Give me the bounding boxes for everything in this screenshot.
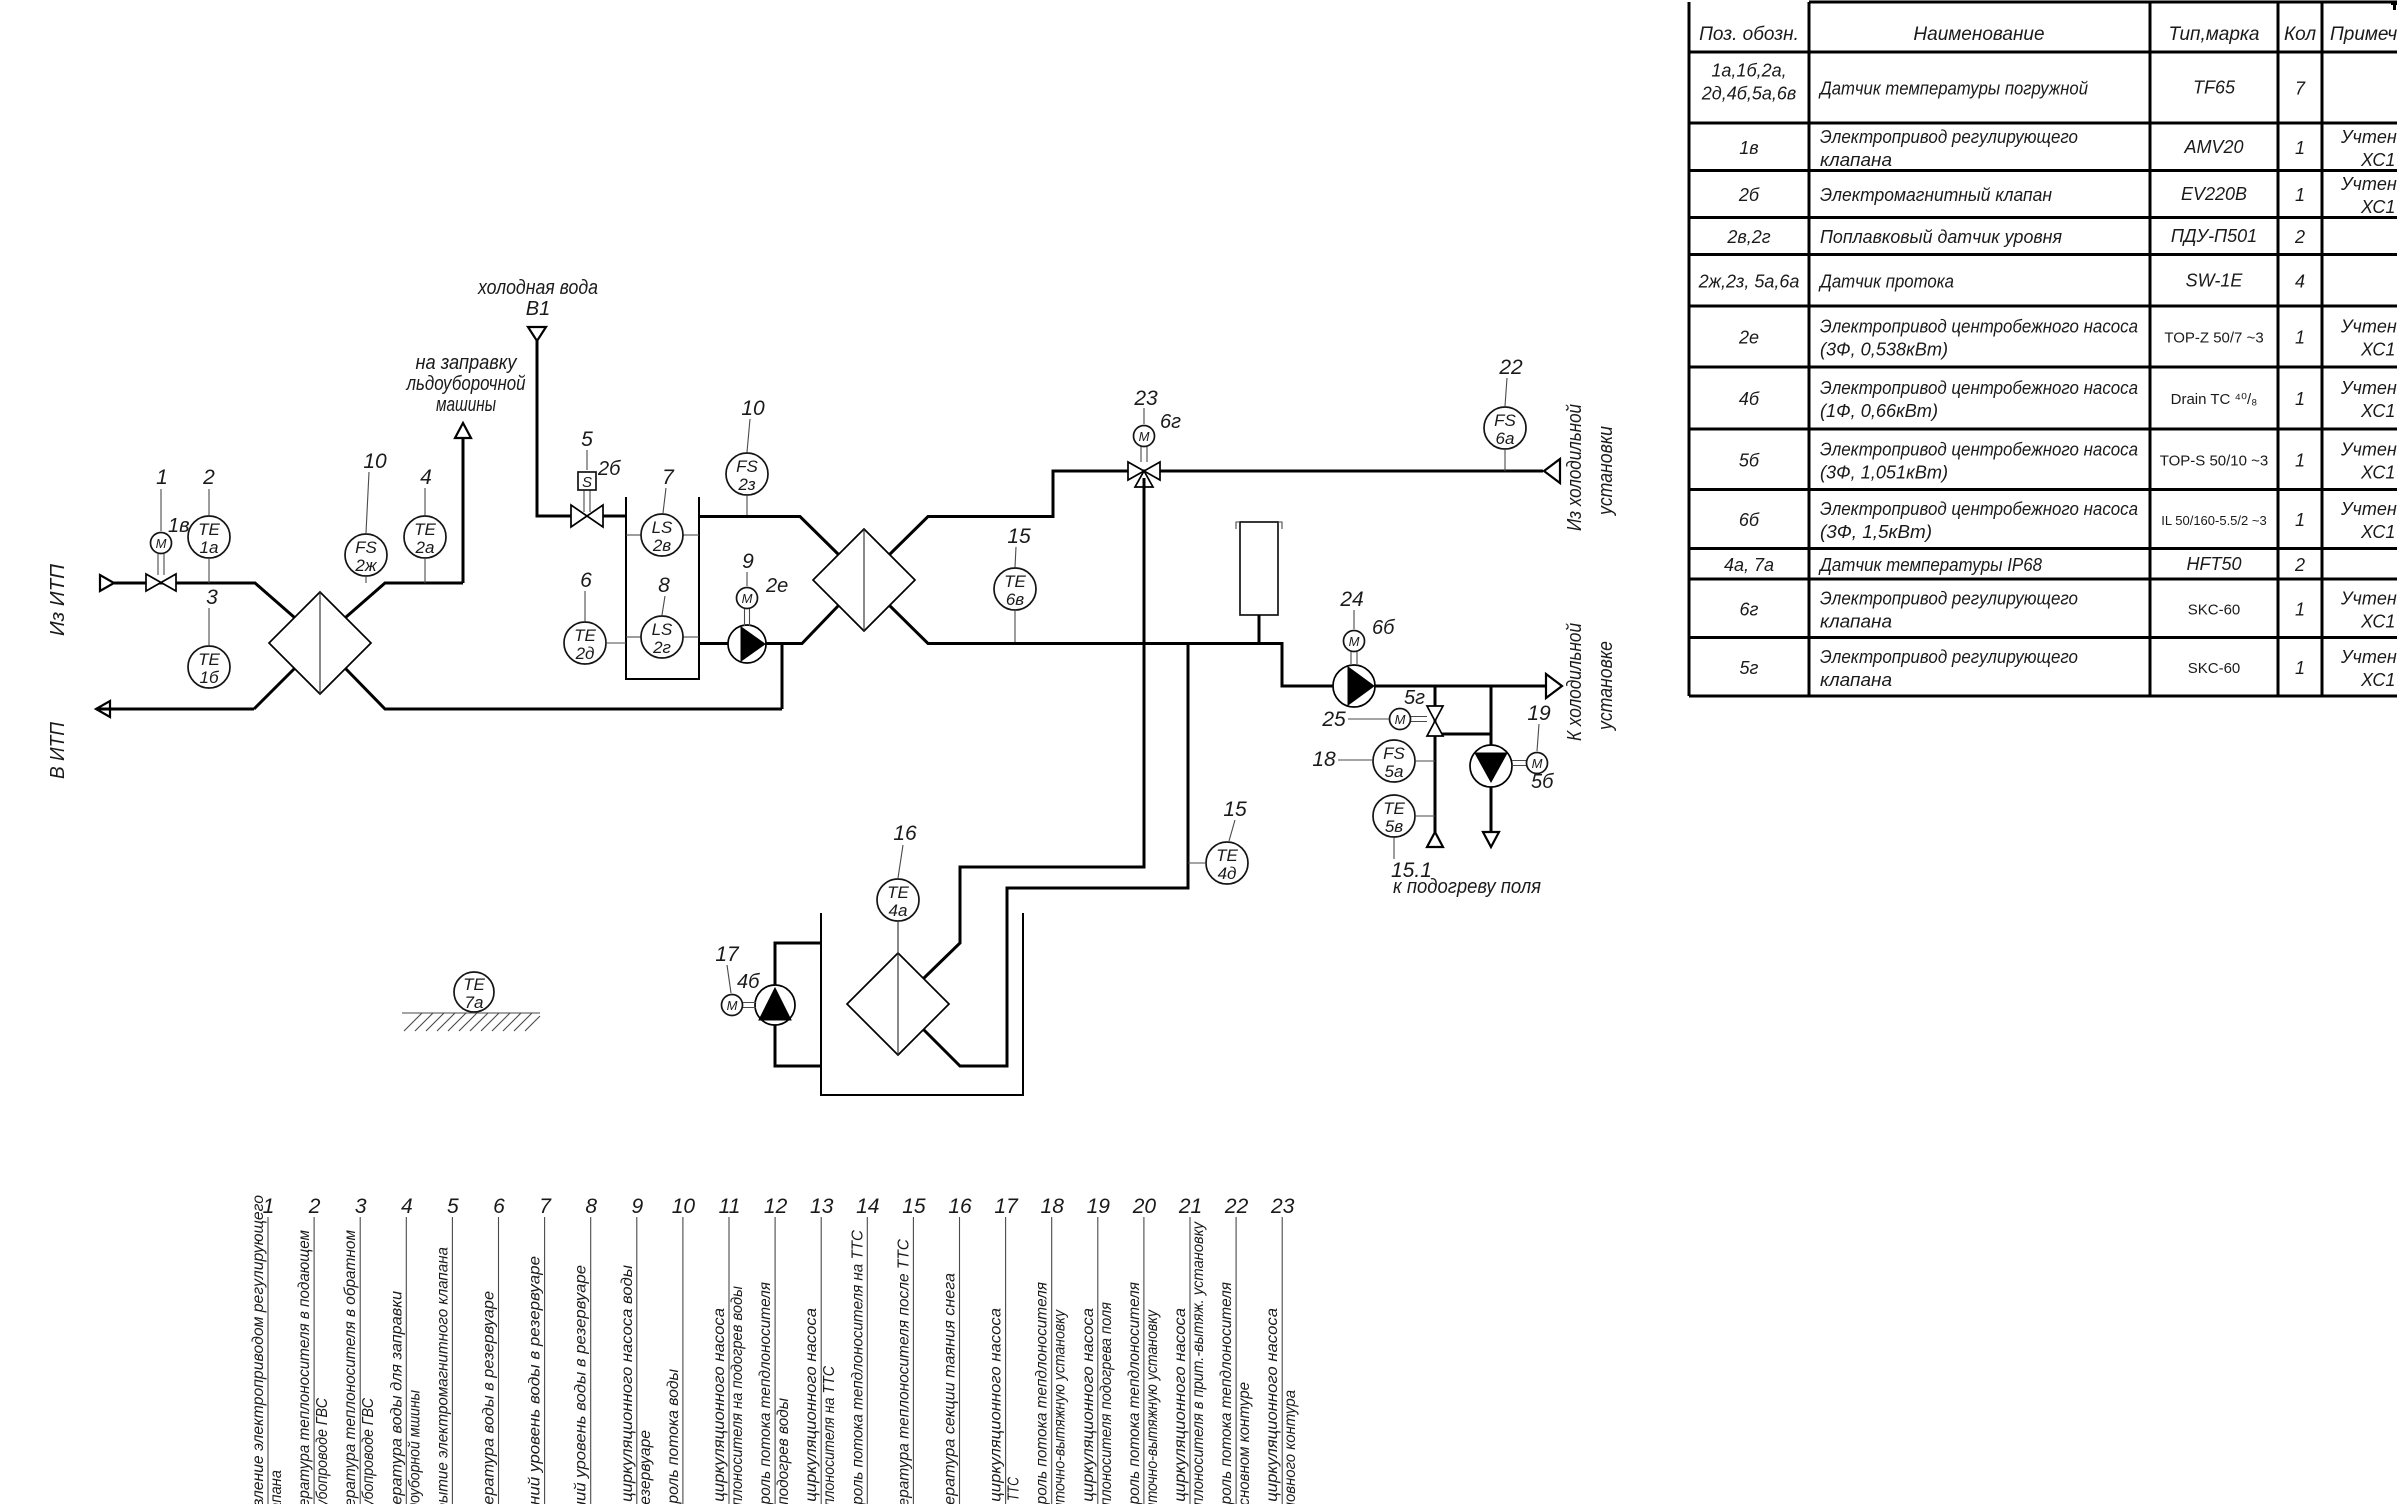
svg-text:Датчик температуры IP68: Датчик температуры IP68 (1818, 555, 2042, 575)
svg-text:FS: FS (355, 538, 377, 557)
svg-text:Температура воды в резервуаре: Температура воды в резервуаре (481, 1291, 498, 1504)
svg-text:Датчик протока: Датчик протока (1818, 271, 1954, 291)
svg-text:приточно-вытяжную установку: приточно-вытяжную установку (1144, 1309, 1161, 1504)
svg-text:21: 21 (1178, 1195, 1202, 1218)
svg-text:теплоносителя подогрева поля: теплоносителя подогрева поля (1098, 1302, 1115, 1504)
wire field heating branch (1435, 686, 1491, 832)
node label 1 (156, 466, 168, 531)
svg-text:TE: TE (198, 650, 220, 669)
svg-text:5г: 5г (1740, 658, 1759, 678)
svg-text:2в,2г: 2в,2г (1726, 227, 1770, 247)
svg-text:2: 2 (2294, 555, 2305, 575)
node В ИТП (return to heat point) (47, 701, 110, 779)
node label 23 (1133, 387, 1158, 424)
node label 16 (893, 822, 917, 878)
svg-text:2б: 2б (1738, 185, 1760, 205)
node arrow to chiller (1546, 623, 1617, 741)
svg-text:M: M (1349, 634, 1360, 649)
svg-text:Электропривод центробежного на: Электропривод центробежного насоса (1820, 439, 2138, 459)
svg-text:24: 24 (1339, 588, 1363, 611)
svg-text:Электропривод центробежного на: Электропривод центробежного насоса (1820, 499, 2138, 519)
svg-text:ХС1: ХС1 (2360, 150, 2395, 170)
wire snow melt supply branch (from 3-way valve down) (924, 478, 1145, 979)
instrument FS 5а (1373, 740, 1435, 782)
svg-text:4б: 4б (1739, 389, 1760, 409)
signal line 12: Контроль потока тепдлоносителя на подогрев воды (757, 1195, 792, 1504)
equipment table (1689, 2, 2397, 696)
heat exchanger HX2 (813, 529, 915, 631)
svg-text:Электропривод центробежного на: Электропривод центробежного насоса (1820, 317, 2138, 337)
svg-text:15: 15 (902, 1195, 926, 1218)
valve 5г motorized valve vertical (1390, 687, 1444, 736)
svg-text:ХС1: ХС1 (2360, 401, 2395, 421)
table row 5б TOP-S (1739, 439, 2397, 482)
svg-text:Поз. обозн.: Поз. обозн. (1699, 24, 1799, 45)
svg-text:M: M (156, 536, 167, 551)
svg-text:1: 1 (2295, 510, 2305, 530)
svg-text:2а: 2а (415, 538, 435, 557)
instrument FS 2ж (345, 534, 387, 583)
svg-text:1а: 1а (200, 538, 219, 557)
snow melt pit walls (821, 913, 1023, 1095)
svg-text:9: 9 (742, 550, 754, 573)
svg-text:(1Ф, 0,66кВт): (1Ф, 0,66кВт) (1820, 401, 1938, 421)
signal line 14: Контроль потока тепдлоносителя на ТТС (849, 1195, 879, 1504)
svg-text:TE: TE (1383, 799, 1405, 818)
svg-text:Учтено: Учтено (2340, 647, 2397, 667)
svg-text:7а: 7а (465, 993, 484, 1012)
svg-text:К холодильной: К холодильной (1564, 623, 1586, 741)
svg-text:SW-1E: SW-1E (2186, 270, 2244, 290)
svg-text:приточно-вытяжную установку: приточно-вытяжную установку (1052, 1309, 1069, 1504)
svg-text:25: 25 (1321, 708, 1346, 731)
svg-text:5в: 5в (1385, 817, 1403, 836)
wire HX1 secondary supply (346, 438, 464, 618)
svg-text:Электропривод регулирующего: Электропривод регулирующего (1820, 127, 2078, 147)
svg-text:IL 50/160-5.5/2 ~3: IL 50/160-5.5/2 ~3 (2161, 513, 2266, 528)
svg-text:Нижний уровень воды в резервуа: Нижний уровень воды в резервуаре (573, 1265, 590, 1504)
svg-text:15: 15 (1223, 798, 1247, 821)
svg-text:Тип,марка: Тип,марка (2169, 24, 2260, 45)
node label 15 (1007, 525, 1031, 567)
pump 5б field heating pump (1470, 745, 1554, 793)
node label 18 (1312, 748, 1373, 771)
wire supply line from ИТП (114, 583, 295, 618)
signal line 4: Температура воды для заправки льдоуборной мшины (388, 1195, 423, 1504)
svg-text:2е: 2е (765, 575, 788, 597)
svg-text:8: 8 (585, 1195, 597, 1218)
svg-text:Температура теплоносителя в об: Температура теплоносителя в обратном (342, 1230, 359, 1504)
svg-text:Контроль потока тепдлоносителя: Контроль потока тепдлоносителя (757, 1282, 774, 1504)
svg-text:клапана: клапана (1820, 670, 1892, 690)
svg-text:Контроль потока тепдлоносителя: Контроль потока тепдлоносителя (1218, 1282, 1235, 1504)
wire pump 4б loop (775, 943, 821, 1066)
heat exchanger HX3 snow melting (847, 953, 949, 1055)
table row 2б EV220B (1738, 174, 2397, 217)
svg-text:клапана: клапана (1820, 611, 1892, 631)
node label 6 (580, 569, 592, 621)
svg-text:4: 4 (401, 1195, 413, 1218)
svg-text:Пуск циркуляционного насоса: Пуск циркуляционного насоса (1264, 1308, 1281, 1504)
svg-text:теплоносителя на подогрев воды: теплоносителя на подогрев воды (729, 1286, 746, 1504)
svg-text:ХС1: ХС1 (2360, 670, 2395, 690)
svg-text:Контроль потока тепдлоносителя: Контроль потока тепдлоносителя на ТТС (849, 1230, 866, 1504)
svg-text:1в: 1в (1739, 138, 1758, 158)
node label 15 at TE4д (1223, 798, 1247, 841)
svg-text:S: S (582, 474, 592, 491)
node label 24 (1339, 588, 1363, 629)
svg-text:Учтено: Учтено (2340, 174, 2397, 194)
svg-text:ХС1: ХС1 (2360, 611, 2395, 631)
signal line 9: Пуск циркуляционного насоса воды в резервуаре (619, 1195, 654, 1504)
table row 1а,1б,2а,2д,4б,5а,6в TF65 (1701, 61, 2306, 104)
svg-text:4б: 4б (737, 971, 760, 993)
svg-text:клапана: клапана (1820, 150, 1892, 170)
table row 6б IL (1739, 499, 2397, 542)
svg-text:Контроль потока тепдлоносителя: Контроль потока тепдлоносителя (1126, 1282, 1143, 1504)
svg-text:22: 22 (1498, 356, 1523, 379)
svg-text:ХС1: ХС1 (2360, 462, 2395, 482)
svg-text:1: 1 (2295, 599, 2305, 619)
node label 2 (202, 466, 215, 515)
svg-text:TE: TE (1004, 572, 1026, 591)
svg-text:Учтено: Учтено (2340, 127, 2397, 147)
pump 6б main circuit pump (1333, 617, 1395, 707)
signal line 16: Температура секции таяния снега (942, 1195, 972, 1504)
svg-text:LS: LS (652, 620, 673, 639)
svg-text:16: 16 (948, 1195, 972, 1218)
valve 1в motorized control valve (146, 533, 176, 592)
svg-text:Температура воды для заправки: Температура воды для заправки (388, 1291, 405, 1504)
svg-text:10: 10 (363, 450, 387, 473)
table row 2в,2г ПДУ-П501 (1726, 226, 2305, 247)
svg-text:18: 18 (1312, 748, 1336, 771)
signal line 15: Температура теплоносителя после ТТС (895, 1195, 925, 1504)
node arrow to ice machine filling (406, 352, 526, 438)
svg-text:5: 5 (447, 1195, 459, 1218)
svg-text:Учтено: Учтено (2340, 499, 2397, 519)
svg-text:ТТС: ТТС (1006, 1477, 1023, 1501)
node label 25 (1321, 708, 1389, 731)
node label 7 (662, 466, 675, 513)
svg-text:5г: 5г (1404, 687, 1425, 709)
svg-text:1: 1 (2295, 328, 2305, 348)
instrument FS 6а (1484, 407, 1526, 471)
svg-text:23: 23 (1270, 1195, 1295, 1218)
svg-text:10: 10 (741, 397, 765, 420)
wire tank bottom outlet to pump 2е (699, 606, 839, 644)
svg-text:Учтено: Учтено (2340, 378, 2397, 398)
svg-text:Контроль потока воды: Контроль потока воды (665, 1369, 682, 1504)
svg-text:Верхний уровень воды в резерву: Верхний уровень воды в резервуаре (527, 1256, 544, 1504)
signal line 18: Контроль потока тепдлоносителя приточно-вытяжную установку (1034, 1195, 1069, 1504)
svg-text:машины: машины (436, 394, 496, 416)
svg-text:4а: 4а (889, 901, 908, 920)
svg-text:Наименование: Наименование (1913, 24, 2044, 45)
svg-text:Электропривод центробежного на: Электропривод центробежного насоса (1820, 378, 2138, 398)
node arrow from field heating (1427, 832, 1443, 847)
svg-text:2ж,2з, 5а,6а: 2ж,2з, 5а,6а (1698, 271, 1800, 291)
wire snow melt return branch (924, 644, 1189, 1067)
svg-text:4: 4 (420, 466, 432, 489)
svg-text:11: 11 (719, 1195, 741, 1218)
svg-text:Пуск циркуляционного насоса: Пуск циркуляционного насоса (1172, 1308, 1189, 1504)
svg-text:LS: LS (652, 518, 673, 537)
svg-text:6г: 6г (1160, 411, 1181, 433)
svg-text:1: 1 (2295, 185, 2305, 205)
ground hatching under TE 7а (402, 1013, 540, 1031)
signal line 3: Температура теплоносителя в обратном трубопроводе ГВС (342, 1195, 377, 1504)
wire pump 5б branch (1490, 686, 1493, 832)
svg-text:TOP-Z 50/7 ~3: TOP-Z 50/7 ~3 (2164, 330, 2263, 347)
svg-text:14: 14 (856, 1195, 879, 1218)
svg-text:2г: 2г (652, 638, 671, 657)
svg-text:на заправку: на заправку (416, 352, 518, 374)
svg-text:5б: 5б (1739, 450, 1760, 470)
svg-text:Электропривод регулирующего: Электропривод регулирующего (1820, 588, 2078, 608)
svg-text:M: M (1532, 756, 1543, 771)
svg-text:ПДУ-П501: ПДУ-П501 (2171, 226, 2257, 246)
svg-text:1б: 1б (199, 668, 219, 687)
signal line 20: Контроль потока тепдлоносителя приточно-вытяжную установку (1126, 1195, 1161, 1504)
wire return line to ИТП (96, 669, 295, 710)
svg-text:клапана: клапана (268, 1470, 285, 1504)
svg-text:6б: 6б (1372, 617, 1395, 639)
svg-text:1: 1 (2295, 658, 2305, 678)
svg-text:SKC-60: SKC-60 (2188, 601, 2241, 618)
svg-text:20: 20 (1132, 1195, 1157, 1218)
svg-text:Из холодильной: Из холодильной (1564, 404, 1586, 531)
wire cold water line (537, 341, 626, 516)
svg-text:TE: TE (887, 883, 909, 902)
svg-text:EV220B: EV220B (2181, 184, 2247, 204)
svg-text:M: M (1395, 712, 1406, 727)
svg-text:Учтено: Учтено (2340, 317, 2397, 337)
instrument TE 5в (1373, 795, 1435, 837)
svg-text:1: 1 (2295, 450, 2305, 470)
wire HX2 cold side return header (890, 606, 1547, 687)
node cold water B1 inlet (477, 277, 598, 341)
node label 8 (658, 574, 670, 615)
wire HX1 secondary return (346, 644, 783, 709)
svg-text:23: 23 (1133, 387, 1158, 410)
svg-text:установки: установки (1595, 426, 1617, 517)
node label 22 (1498, 356, 1523, 406)
svg-text:Температура теплоносителя в по: Температура теплоносителя в подающем (296, 1230, 313, 1504)
signal line 11: Пуск циркуляционного насоса теплоносителя на подогрев воды (711, 1195, 746, 1504)
svg-text:6г: 6г (1740, 599, 1759, 619)
signal line 21: Пуск циркуляционного насоса теплоносителя в прит.-вытяж. установку (1172, 1195, 1207, 1504)
node label 4 (420, 466, 432, 515)
svg-text:3: 3 (206, 586, 218, 609)
pump 2е circulation pump (728, 575, 788, 663)
svg-text:8: 8 (658, 574, 670, 597)
svg-text:Пуск циркуляционного насоса: Пуск циркуляционного насоса (988, 1308, 1005, 1504)
svg-text:2б: 2б (597, 458, 621, 480)
table row 5г SKC-60 (1740, 647, 2397, 690)
svg-text:TE: TE (574, 626, 596, 645)
svg-text:теплоносителя на ТТС: теплоносителя на ТТС (821, 1366, 838, 1504)
svg-text:FS: FS (1383, 744, 1405, 763)
svg-text:TE: TE (1216, 846, 1238, 865)
svg-text:19: 19 (1087, 1195, 1111, 1218)
svg-text:5б: 5б (1531, 771, 1554, 793)
svg-text:9: 9 (631, 1195, 643, 1218)
svg-text:к подогреву поля: к подогреву поля (1393, 876, 1541, 898)
table row 2ж,2з,5а,6а SW-1E (1698, 270, 2305, 291)
node label 5 (581, 428, 593, 470)
instrument FS 2з (726, 453, 768, 516)
svg-text:FS: FS (736, 457, 758, 476)
table row 4б Drain TC (1739, 378, 2397, 421)
node label 10 second (741, 397, 765, 452)
svg-text:12: 12 (764, 1195, 788, 1218)
node label 15.1 to field heating (1391, 838, 1541, 898)
svg-text:Учтено: Учтено (2340, 588, 2397, 608)
node label 19 (1527, 702, 1551, 751)
svg-text:Открытие электромагнитного кла: Открытие электромагнитного клапана (434, 1247, 451, 1504)
svg-text:6в: 6в (1006, 590, 1024, 609)
signal line 8: Нижний уровень воды в резервуаре (573, 1195, 598, 1504)
signal line 1: Управление электроприводом регулирующего клапана (250, 1195, 285, 1504)
svg-text:Датчик температуры погружной: Датчик температуры погружной (1818, 79, 2088, 99)
svg-text:19: 19 (1527, 702, 1551, 725)
svg-text:HFT50: HFT50 (2186, 554, 2241, 574)
svg-text:2з: 2з (737, 475, 755, 494)
svg-text:на подогрев воды: на подогрев воды (775, 1398, 792, 1504)
svg-text:Пуск циркуляционного насоса: Пуск циркуляционного насоса (1080, 1308, 1097, 1504)
svg-text:16: 16 (893, 822, 917, 845)
svg-text:7: 7 (539, 1195, 552, 1218)
instrument TE 7а outdoor sensor (454, 972, 494, 1012)
svg-text:2: 2 (2294, 227, 2305, 247)
svg-text:6: 6 (493, 1195, 505, 1218)
svg-text:22: 22 (1224, 1195, 1249, 1218)
heat exchanger HX1 (269, 592, 371, 694)
svg-text:Пуск циркуляционного насоса: Пуск циркуляционного насоса (711, 1308, 728, 1504)
svg-text:Управление электроприводом рег: Управление электроприводом регулирующего (250, 1195, 267, 1504)
svg-text:7: 7 (662, 466, 675, 489)
svg-text:2: 2 (202, 466, 215, 489)
svg-text:M: M (727, 998, 738, 1013)
svg-text:ХС1: ХС1 (2360, 197, 2395, 217)
svg-text:трубопроводе ГВС: трубопроводе ГВС (360, 1398, 377, 1504)
svg-text:Температура секции таяния снег: Температура секции таяния снега (942, 1273, 959, 1504)
svg-text:1в: 1в (168, 515, 190, 537)
svg-text:Учтено: Учтено (2340, 439, 2397, 459)
signal line 19: Пуск циркуляционного насоса теплоносителя подогрева поля (1080, 1195, 1115, 1504)
signal line 13: Пуск циркуляционного насоса теплоносителя на ТТС (803, 1195, 838, 1504)
svg-text:5а: 5а (1385, 762, 1404, 781)
svg-text:SKC-60: SKC-60 (2188, 660, 2241, 677)
svg-text:в основном контуре: в основном контуре (1236, 1382, 1253, 1504)
svg-text:1: 1 (2295, 138, 2305, 158)
instrument LS 2в level switch (626, 514, 699, 556)
node label 9 (742, 550, 754, 586)
svg-text:теплоносителя в прит.-вытяж. у: теплоносителя в прит.-вытяж. установку (1190, 1221, 1207, 1504)
svg-text:1: 1 (2295, 389, 2305, 409)
svg-text:7: 7 (2295, 79, 2306, 99)
svg-text:13: 13 (810, 1195, 834, 1218)
svg-text:ХС1: ХС1 (2360, 340, 2395, 360)
signal line 17: Пуск циркуляционного насоса ТТС (988, 1195, 1023, 1504)
svg-text:В1: В1 (526, 298, 550, 320)
node arrow down from pump 5б (1483, 832, 1499, 847)
signal line 5: Открытие электромагнитного клапана (434, 1195, 459, 1504)
svg-text:17: 17 (715, 943, 740, 966)
svg-text:18: 18 (1041, 1195, 1065, 1218)
valve 2б solenoid valve (571, 458, 621, 527)
svg-text:4: 4 (2295, 271, 2305, 291)
svg-text:6б: 6б (1739, 510, 1760, 530)
table row 2е TOP-Z (1738, 317, 2397, 360)
svg-text:Контроль потока тепдлоносителя: Контроль потока тепдлоносителя (1034, 1282, 1051, 1504)
svg-text:TE: TE (198, 520, 220, 539)
svg-text:Электропривод регулирующего: Электропривод регулирующего (1820, 647, 2078, 667)
svg-text:M: M (742, 591, 753, 606)
instrument TE 2а (404, 516, 446, 583)
svg-text:2е: 2е (1738, 328, 1759, 348)
signal line 10: Контроль потока воды (665, 1195, 695, 1504)
svg-text:1: 1 (156, 466, 168, 489)
svg-text:льдоуборочной: льдоуборочной (406, 373, 526, 395)
svg-text:6а: 6а (1496, 429, 1515, 448)
table row 6г SKC-60 (1740, 588, 2397, 631)
signal line 2: Температура теплоносителя в подающем трубопроводе ГВС (296, 1195, 331, 1504)
svg-text:льдоуборной мшины: льдоуборной мшины (406, 1390, 423, 1504)
svg-text:TOP-S 50/10 ~3: TOP-S 50/10 ~3 (2160, 452, 2269, 469)
signal line 22: Контроль потока тепдлоносителя в основном контуре (1218, 1195, 1253, 1504)
signal line 6: Температура воды в резервуаре (481, 1195, 506, 1504)
table row 1в AMV20 (1739, 127, 2397, 170)
instrument TE 4а (877, 879, 919, 1055)
svg-text:(3Ф, 0,538кВт): (3Ф, 0,538кВт) (1820, 340, 1948, 360)
svg-text:Электромагнитный клапан: Электромагнитный клапан (1820, 185, 2052, 205)
svg-text:4а, 7а: 4а, 7а (1724, 555, 1774, 575)
wire HX2 hot side supply from chiller (890, 471, 1544, 555)
svg-text:1а,1б,2а,: 1а,1б,2а, (1711, 61, 1786, 81)
instrument LS 2г level switch (626, 616, 699, 658)
svg-text:Пуск циркуляционного насоса: Пуск циркуляционного насоса (803, 1308, 820, 1504)
pump 4б melt pit pump (722, 971, 796, 1025)
svg-text:(3Ф, 1,5кВт): (3Ф, 1,5кВт) (1820, 522, 1932, 542)
svg-text:2: 2 (308, 1195, 321, 1218)
svg-text:установке: установке (1595, 641, 1617, 732)
svg-text:Примечание: Примечание (2330, 24, 2397, 45)
svg-text:4д: 4д (1218, 864, 1237, 883)
svg-text:2ж: 2ж (354, 556, 377, 575)
expansion tank (1236, 522, 1282, 643)
svg-text:Drain TC ⁴⁰/₈: Drain TC ⁴⁰/₈ (2171, 391, 2258, 408)
svg-text:холодная вода: холодная вода (477, 277, 598, 299)
svg-text:6: 6 (580, 569, 592, 592)
instrument TE 6в (994, 568, 1036, 643)
svg-text:Температура теплоносителя посл: Температура теплоносителя после ТТС (895, 1239, 912, 1504)
svg-text:ХС1: ХС1 (2360, 522, 2395, 542)
svg-text:2в: 2в (652, 536, 671, 555)
instrument TE 2д (564, 622, 626, 664)
node Из ИТП (supply from heat point) (47, 563, 114, 636)
node arrow from chiller (1544, 404, 1617, 531)
svg-text:трубопроводе ГВС: трубопроводе ГВС (314, 1398, 331, 1504)
svg-text:17: 17 (994, 1195, 1019, 1218)
wire tank outlet to HX2 (699, 517, 839, 555)
valve 6г three-way motorized (1128, 411, 1181, 487)
svg-text:Пуск циркуляционного насоса во: Пуск циркуляционного насоса воды (619, 1265, 636, 1504)
node label 17 (715, 943, 740, 993)
svg-text:Кол: Кол (2284, 24, 2316, 45)
signal line 7: Верхний уровень воды в резервуаре (527, 1195, 553, 1504)
